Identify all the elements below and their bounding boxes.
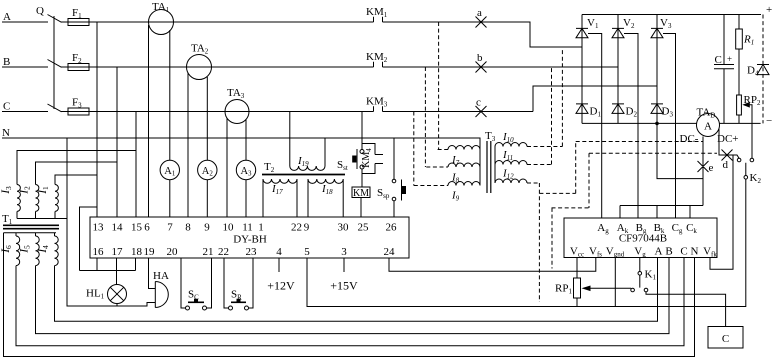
svg-text:11: 11	[242, 222, 253, 234]
svg-text:+: +	[727, 54, 732, 64]
svg-text:24: 24	[384, 246, 396, 258]
svg-text:1: 1	[258, 222, 264, 234]
svg-text:B: B	[665, 246, 672, 258]
svg-text:HA: HA	[153, 270, 169, 282]
svg-text:22: 22	[218, 246, 229, 258]
svg-text:26: 26	[386, 222, 398, 234]
svg-text:18: 18	[131, 246, 143, 258]
svg-text:16: 16	[93, 246, 105, 258]
svg-text:N: N	[2, 127, 10, 139]
svg-text:13: 13	[93, 222, 105, 234]
svg-text:20: 20	[167, 246, 179, 258]
svg-text:A: A	[704, 121, 712, 133]
svg-text:B: B	[3, 56, 10, 68]
svg-text:KM: KM	[353, 188, 369, 199]
svg-text:5: 5	[304, 246, 310, 258]
svg-text:b: b	[477, 52, 483, 64]
svg-text:19: 19	[144, 246, 156, 258]
svg-text:21: 21	[203, 246, 214, 258]
svg-text:e: e	[709, 162, 714, 174]
svg-text:C: C	[3, 101, 10, 113]
svg-text:DC+: DC+	[717, 133, 738, 145]
svg-text:17: 17	[112, 246, 124, 258]
svg-text:6: 6	[144, 222, 150, 234]
svg-text:9: 9	[204, 222, 210, 234]
svg-text:23: 23	[246, 246, 258, 258]
svg-text:DC-: DC-	[680, 133, 699, 145]
svg-text:25: 25	[358, 222, 370, 234]
svg-text:A: A	[655, 246, 663, 258]
svg-text:C: C	[715, 54, 722, 66]
svg-text:7: 7	[167, 222, 173, 234]
svg-text:3: 3	[341, 246, 347, 258]
svg-text:c: c	[476, 97, 481, 109]
svg-text:+15V: +15V	[330, 279, 358, 293]
svg-text:4: 4	[276, 246, 282, 258]
svg-text:N: N	[691, 246, 699, 258]
svg-text:15: 15	[131, 222, 143, 234]
svg-text:d: d	[723, 159, 729, 171]
svg-text:+: +	[766, 4, 772, 16]
svg-text:−: −	[766, 115, 772, 127]
svg-text:a: a	[477, 7, 482, 19]
svg-text:CF97044B: CF97044B	[619, 233, 667, 245]
svg-text:10: 10	[223, 222, 235, 234]
svg-text:A: A	[3, 11, 11, 23]
svg-text:8: 8	[185, 222, 191, 234]
svg-text:22: 22	[291, 222, 302, 234]
svg-text:14: 14	[112, 222, 124, 234]
svg-text:9: 9	[304, 222, 310, 234]
svg-text:+12V: +12V	[267, 279, 295, 293]
svg-text:Q: Q	[36, 5, 44, 17]
svg-text:DY-BH: DY-BH	[233, 234, 267, 246]
svg-text:C: C	[680, 246, 687, 258]
svg-text:C: C	[722, 333, 729, 345]
svg-text:30: 30	[338, 222, 350, 234]
